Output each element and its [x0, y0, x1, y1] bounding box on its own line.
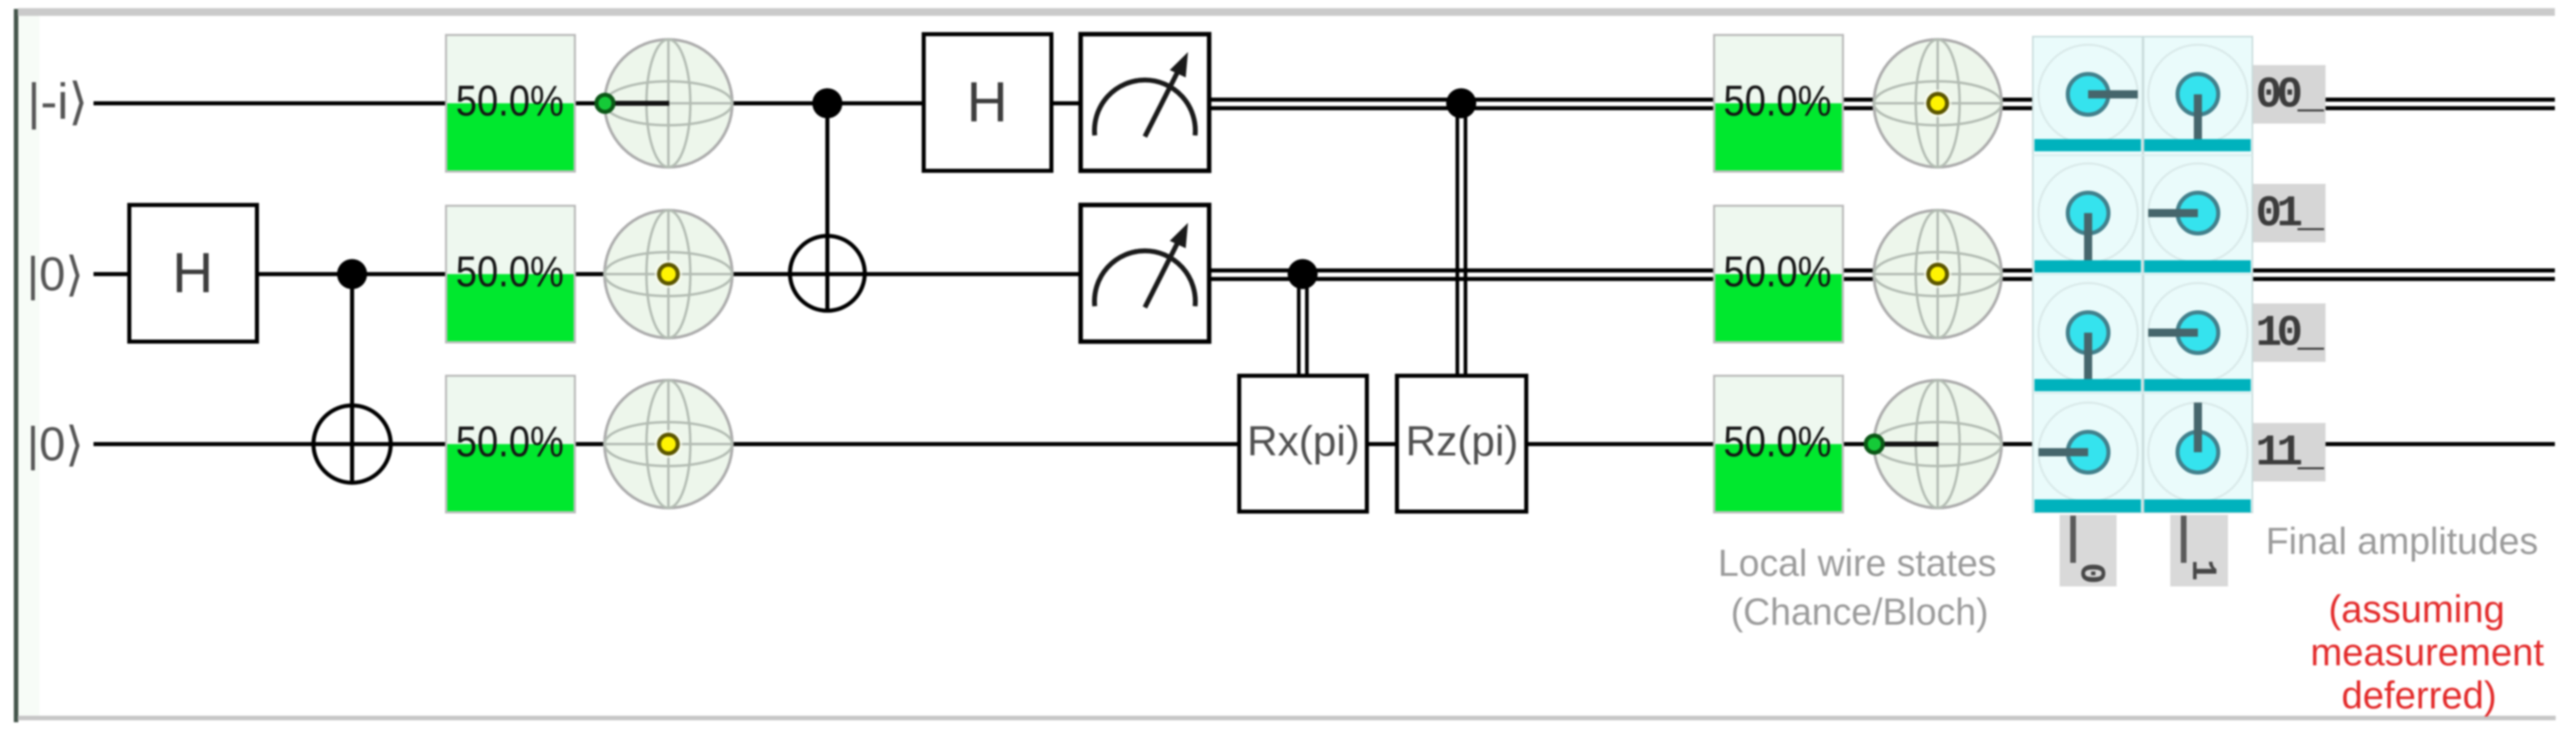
caption red line 2 measurement [2310, 630, 2543, 673]
svg-text:50.0%: 50.0% [456, 418, 564, 466]
svg-text:|0⟩: |0⟩ [27, 418, 84, 471]
measurement gate M1 wire 1 [1081, 34, 1209, 171]
control dot q1 classical (controls Rz) [1447, 89, 1477, 119]
wire classical double vertical connector q2 control to Rx [1297, 274, 1301, 378]
rotated column label 0 [2060, 515, 2117, 586]
svg-text:Final amplitudes: Final amplitudes [2266, 520, 2539, 562]
control dot q2 classical (controls Rx) [1288, 259, 1318, 290]
control dot q2 (CNOT to q3) [337, 259, 368, 290]
wire q3 single segment [94, 442, 2555, 447]
bloch sphere display wire1 col A (minus-x state) [597, 40, 733, 168]
gate Rz(pi) box wire 3 [1397, 376, 1526, 512]
amplitude cell row3 col2 (10, phase left) [2148, 283, 2247, 382]
control dot q1 (CNOT to q2) [812, 89, 842, 119]
svg-text:|0⟩: |0⟩ [27, 248, 84, 301]
ket label |0> wire 2 [27, 248, 84, 301]
wire vertical connector control q1 to X target q2 [825, 103, 829, 311]
svg-text:Rx(pi): Rx(pi) [1247, 418, 1360, 465]
svg-text:H: H [172, 241, 214, 304]
probability bar row3 [2034, 379, 2141, 391]
svg-text:50.0%: 50.0% [1724, 77, 1832, 125]
svg-text:50.0%: 50.0% [456, 248, 564, 296]
wire q1 single segment [94, 102, 1151, 106]
wire classical double vertical connector q1 control to Rz [1456, 103, 1460, 378]
bloch sphere display wire3 col A (center dot) [605, 381, 733, 508]
svg-text:50.0%: 50.0% [456, 77, 564, 125]
rotated column label 1 [2170, 515, 2228, 586]
wire q1 classical double segment [1207, 98, 2555, 102]
chance display 50.0% wire3 col A [446, 376, 576, 512]
svg-text:H: H [967, 70, 1008, 133]
measurement gate M2 wire 2 [1081, 205, 1209, 342]
bloch sphere display wire1 col B (center dot) [1874, 40, 2002, 168]
chance display 50.0% wire1 col B [1714, 35, 1843, 172]
X target (CNOT) on q2 [790, 236, 865, 311]
caption Final amplitudes [2266, 520, 2539, 562]
svg-text:10_: 10_ [2256, 309, 2325, 359]
svg-text:deferred): deferred) [2342, 673, 2497, 717]
bloch sphere display wire2 col B (center dot) [1874, 211, 2002, 338]
basis label 10_ [2253, 303, 2326, 362]
final amplitude display grid background [2033, 37, 2252, 512]
chance display 50.0% wire2 col A [446, 206, 576, 342]
probability bar row4 [2034, 499, 2141, 512]
svg-text:(assuming: (assuming [2329, 587, 2505, 630]
caption Local wire states [1718, 542, 1997, 584]
svg-text:measurement: measurement [2310, 630, 2543, 673]
decorative drop zone tint [19, 15, 40, 716]
frame top bar [18, 8, 2555, 16]
bloch sphere display wire3 col B (minus-x state) [1866, 381, 2002, 508]
svg-text:50.0%: 50.0% [1724, 248, 1832, 296]
amplitude cell row4 col1 (11, phase left) [2039, 403, 2138, 502]
basis label 00_ [2253, 65, 2326, 124]
wire q2 single segment [94, 272, 1151, 277]
chance display 50.0% wire3 col B [1714, 376, 1843, 512]
caption red line 1 (assuming [2329, 587, 2505, 630]
svg-text:1: 1 [2182, 560, 2222, 581]
svg-text:50.0%: 50.0% [1724, 418, 1832, 466]
svg-text:01_: 01_ [2256, 190, 2325, 239]
op-amp H1 gate box wire 1 [924, 34, 1051, 171]
svg-text:Local wire states: Local wire states [1718, 542, 1997, 584]
amplitude cell row1 col2 (00, phase down) [2148, 45, 2247, 144]
probability bar row1 [2034, 139, 2141, 151]
amplitude cell row3 col1 (10, phase down) [2039, 283, 2138, 382]
chance display 50.0% wire2 col B [1714, 206, 1843, 342]
frame bottom bar [18, 716, 2556, 721]
svg-text:11_: 11_ [2256, 429, 2325, 478]
chance display 50.0% wire1 col A [446, 35, 576, 172]
basis label 01_ [2253, 184, 2326, 242]
amplitude cell row2 col2 (01, phase left) [2148, 163, 2247, 263]
svg-text:|-i⟩: |-i⟩ [28, 74, 89, 130]
wire vertical connector control q2 to X target q3 [350, 274, 355, 483]
gate Rx(pi) box wire 3 [1239, 376, 1367, 512]
basis label 11_ [2253, 423, 2326, 481]
svg-text:Rz(pi): Rz(pi) [1406, 418, 1519, 465]
wire q2 classical double segment [1207, 268, 2555, 272]
svg-text:0: 0 [2070, 563, 2111, 584]
amplitude cell row2 col1 (01, phase down) [2039, 163, 2138, 263]
amplitude cell row1 col1 (00, phase right) [2039, 45, 2138, 144]
frame left border [14, 9, 19, 722]
ket label |0> wire 3 [27, 418, 84, 471]
caption red line 3 deferred) [2342, 673, 2497, 717]
X target (CNOT) on q3 [314, 406, 391, 483]
bloch sphere display wire2 col A (center dot) [605, 211, 733, 338]
amplitude cell row4 col2 (11, phase up) [2148, 403, 2247, 502]
probability bar row2 [2034, 260, 2141, 272]
svg-text:00_: 00_ [2256, 71, 2325, 120]
op-amp H2 gate box wire 2 [129, 205, 257, 342]
svg-text:(Chance/Bloch): (Chance/Bloch) [1730, 590, 1988, 633]
ket label |-i> wire 1 [28, 74, 89, 130]
caption (Chance/Bloch) [1730, 590, 1988, 633]
